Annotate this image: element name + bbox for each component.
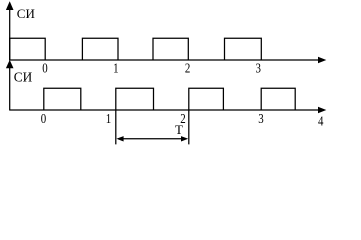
trace 2 axis baseline <box>10 109 319 111</box>
trace 2 pulse 1 <box>44 88 81 110</box>
T dimension double-arrow line <box>118 138 187 140</box>
trace 1 axis up arrowhead <box>6 1 14 10</box>
trace 2 vertical axis <box>9 66 11 111</box>
trace 2 axis up arrowhead <box>6 60 14 68</box>
svg-text:3: 3 <box>258 111 263 127</box>
trace 1 pulse 2 <box>82 38 118 60</box>
svg-text:0: 0 <box>42 60 47 76</box>
svg-text:СИ: СИ <box>14 69 33 84</box>
trace 1 pulse 4 <box>225 38 262 60</box>
T dimension left arrowhead <box>116 136 123 141</box>
trace 1 pulse 1 <box>10 38 46 60</box>
trace 1 axis baseline <box>10 59 319 61</box>
svg-text:СИ: СИ <box>17 6 35 21</box>
svg-text:1: 1 <box>113 60 118 76</box>
trace 2 pulse 3 (rising edge extended to T marker) <box>189 88 224 144</box>
trace 1 axis right arrowhead <box>318 57 326 64</box>
trace 2 axis right arrowhead <box>318 107 326 114</box>
svg-text:Т: Т <box>175 122 183 137</box>
svg-text:4: 4 <box>318 113 324 129</box>
svg-text:2: 2 <box>185 60 190 76</box>
trace 2 pulse 2 (rising edge extended to T marker) <box>116 88 154 144</box>
T dimension right arrowhead <box>181 136 188 141</box>
svg-text:3: 3 <box>255 60 260 76</box>
svg-text:0: 0 <box>41 111 46 127</box>
trace 1 pulse 3 <box>153 38 188 60</box>
trace 2 pulse 4 <box>261 88 295 110</box>
svg-text:1: 1 <box>106 111 111 127</box>
trace 1 vertical axis <box>9 8 11 61</box>
